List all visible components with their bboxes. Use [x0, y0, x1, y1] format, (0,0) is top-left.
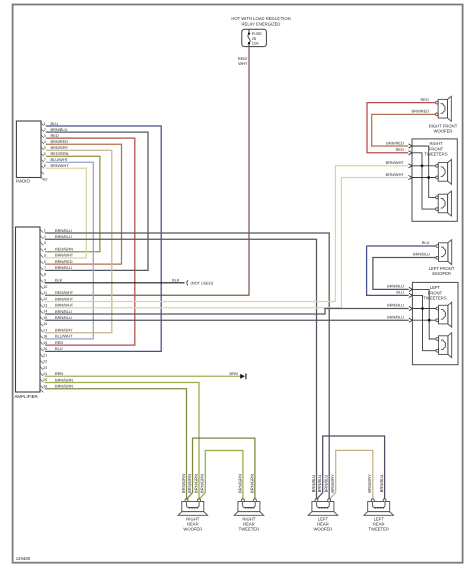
svg-text:16: 16 [43, 322, 47, 326]
radio pin numbers [43, 122, 47, 182]
svg-text:17: 17 [43, 328, 47, 332]
svg-text:BRN/BLU: BRN/BLU [387, 303, 404, 308]
svg-text:15: 15 [43, 316, 47, 320]
svg-text:BRN/BLU: BRN/BLU [379, 475, 384, 493]
svg-text:FUSE: FUSE [252, 32, 263, 36]
wire inside right box arrow2 to tweeter2 bottom [412, 153, 436, 209]
wire RADIO pin 7 BLU/WHT to AMPLIFIER pin 18 [45, 162, 93, 339]
svg-text:RED: RED [421, 97, 429, 102]
right tweeters arrow labels [386, 140, 405, 176]
wire inside left box arrow2 to tweeter2 bottom [412, 295, 435, 350]
svg-text:4: 4 [44, 140, 46, 144]
svg-text:3: 3 [44, 241, 46, 245]
wire AMPLIFIER pin 24 BRN to ground [45, 375, 240, 377]
rear wire color labels (vertical) [181, 474, 384, 493]
svg-text:BRN/RED: BRN/RED [386, 140, 404, 145]
svg-text:BRN/GRY: BRN/GRY [51, 145, 69, 150]
svg-text:BRN/WHT: BRN/WHT [55, 303, 74, 308]
wire right rear woofer T2 to right rear tweeter T1 parallel loop [199, 451, 243, 500]
svg-text:28: 28 [252, 37, 256, 41]
wire AMPLIFIER pin 14 BRN/BLU to left front tweeters arrow 3 [45, 309, 409, 315]
wire RED/WHT fuse to amplifier pin 11 [45, 47, 249, 296]
svg-text:BRN/WHT: BRN/WHT [386, 160, 405, 165]
wire RADIO pin 3 RED to AMPLIFIER pin 19 [45, 138, 135, 345]
svg-text:1: 1 [44, 229, 46, 233]
svg-text:12: 12 [43, 297, 47, 301]
left front tweeters box [412, 282, 458, 364]
wire RADIO pin 4 BRN/RED to AMPLIFIER pin 6 [45, 144, 122, 264]
svg-text:BRN/RED: BRN/RED [51, 139, 69, 144]
svg-text:BLU: BLU [422, 240, 430, 245]
svg-text:11: 11 [43, 291, 47, 295]
svg-text:BRN/BLU: BRN/BLU [413, 252, 430, 257]
svg-text:BRN/BLU: BRN/BLU [317, 475, 322, 493]
svg-text:WHT: WHT [238, 61, 248, 66]
svg-text:(NOT USED): (NOT USED) [191, 280, 214, 285]
junction dot left box 1 [421, 307, 424, 310]
svg-text:9: 9 [44, 279, 46, 283]
svg-text:BRN: BRN [230, 371, 238, 376]
wire inside left box arrow3 to tweeter1 top [412, 308, 435, 310]
svg-text:BLK: BLK [172, 277, 180, 282]
wire inside right box arrow1 to tweeter2 top [412, 146, 436, 197]
amplifier connector block [16, 227, 41, 392]
svg-text:TWEETERS: TWEETERS [423, 296, 446, 301]
svg-text:LEFT FRONT: LEFT FRONT [429, 266, 455, 271]
svg-text:6: 6 [44, 260, 46, 264]
svg-text:TWEETERS: TWEETERS [424, 152, 447, 157]
svg-text:BRN: BRN [55, 371, 63, 376]
radio pin wire labels [51, 121, 70, 168]
svg-text:WOOFER: WOOFER [432, 271, 451, 276]
svg-text:BRN/WHT: BRN/WHT [51, 163, 70, 168]
svg-text:25: 25 [43, 378, 47, 382]
svg-text:BRN/GRN: BRN/GRN [249, 474, 254, 493]
wire RADIO pin 8 BRN/WHT to AMPLIFIER pin 5 [45, 168, 86, 258]
svg-text:TWEETER: TWEETER [368, 527, 388, 532]
svg-text:BRN/BLU: BRN/BLU [55, 265, 72, 270]
svg-text:4: 4 [44, 247, 46, 251]
svg-text:13: 13 [43, 304, 47, 308]
svg-text:AMPLIFIER: AMPLIFIER [15, 394, 38, 399]
svg-text:15A: 15A [252, 41, 259, 45]
svg-text:BRN/GRN: BRN/GRN [181, 474, 186, 493]
wire AMPLIFIER pin 12 BRN/WHT to right front tweeters arrow 3 [45, 166, 409, 302]
svg-text:1: 1 [44, 122, 46, 126]
wire inside right box arrow4 to tweeter1 bottom [412, 177, 436, 179]
svg-text:WOOFER: WOOFER [434, 129, 453, 134]
svg-text:24: 24 [43, 372, 47, 376]
svg-text:BRN/GRN: BRN/GRN [193, 474, 198, 493]
ground symbol [240, 374, 245, 379]
svg-text:WOOFER: WOOFER [313, 527, 332, 532]
svg-text:BRN/GRY: BRN/GRY [55, 328, 73, 333]
wire left rear woofer T2 to left rear tweeter T1 parallel loop [329, 450, 373, 499]
svg-text:20: 20 [43, 347, 47, 351]
wire AMPLIFIER pin 26 BRN/GRN to right rear woofer terminal 1 [45, 389, 187, 499]
speaker right rear tweeter [234, 502, 264, 516]
radio connector block [16, 121, 41, 178]
svg-text:2: 2 [44, 128, 46, 132]
wire RADIO pin 2 BRN/BLU to AMPLIFIER pin 7 [45, 132, 148, 270]
svg-text:RIGHT FRONT: RIGHT FRONT [429, 123, 458, 128]
wire right rear woofer T1 to right rear tweeter T2 parallel loop [187, 438, 255, 499]
svg-text:21: 21 [43, 353, 47, 357]
junction dot right box 2 [427, 176, 430, 179]
svg-text:10: 10 [43, 177, 47, 181]
connector arrows into left tweeters box [409, 287, 413, 322]
connector arrows into right tweeters box [409, 144, 413, 180]
svg-text:14: 14 [43, 310, 47, 314]
svg-text:BLU: BLU [396, 290, 404, 295]
svg-text:19: 19 [43, 341, 47, 345]
svg-text:BLU: BLU [55, 346, 63, 351]
svg-text:BRN/WHT: BRN/WHT [386, 172, 405, 177]
svg-text:18: 18 [43, 335, 47, 339]
svg-text:BLU: BLU [51, 121, 59, 126]
wire inside left box arrow4 to tweeter1 bottom [412, 319, 435, 321]
wire RED right front woofer loop to right tweeters arrow 2 [367, 103, 435, 153]
wire inside left box arrow1 to tweeter2 top [412, 289, 435, 339]
fuse F28 15A [242, 29, 267, 46]
wire AMPLIFIER pin 2 BRN/BLU to left rear woofer terminal 1 [45, 239, 317, 499]
junction dot right box 1 [421, 164, 424, 167]
speaker left front tweeter 1 [436, 302, 452, 327]
speaker left front woofer [436, 240, 452, 265]
svg-text:BRN/GRN: BRN/GRN [55, 377, 73, 382]
wire AMPLIFIER pin 25 BRN/GRN to right rear woofer terminal 2 [45, 383, 199, 499]
svg-text:BLK: BLK [55, 278, 63, 283]
wire left rear woofer T1 to left rear tweeter T2 parallel loop [317, 436, 385, 500]
svg-text:BLU/WHT: BLU/WHT [55, 334, 73, 339]
svg-text:BRN/GRN: BRN/GRN [237, 474, 242, 493]
amplifier pin wire labels [55, 228, 74, 389]
right front tweeters box [412, 139, 457, 221]
svg-text:BRN/GRY: BRN/GRY [367, 474, 372, 493]
svg-text:BRN/GRN: BRN/GRN [55, 384, 73, 389]
amplifier pin stubs [40, 230, 43, 389]
svg-text:WOOFER: WOOFER [183, 527, 202, 532]
svg-text:RED/GRN: RED/GRN [51, 151, 69, 156]
speaker right front tweeter 2 [436, 191, 452, 216]
svg-text:RED: RED [55, 340, 63, 345]
wire RADIO pin 6 RED/GRN to AMPLIFIER pin 4 [45, 156, 100, 252]
speaker left front tweeter 2 [436, 333, 452, 358]
speaker left rear woofer [308, 502, 338, 516]
speaker right front tweeter 1 [436, 160, 452, 185]
wire RADIO pin 5 BRN/GRY to AMPLIFIER pin 17 [45, 150, 112, 333]
rear speaker name labels [183, 516, 389, 531]
wire RADIO pin 1 BLU to AMPLIFIER pin 20 [45, 126, 161, 351]
svg-text:RED/GRN: RED/GRN [55, 247, 73, 252]
amplifier pin numbers [43, 229, 47, 389]
wire BRN/BLU left front woofer loop to left tweeters arrow 1 [373, 258, 436, 290]
svg-text:5: 5 [44, 146, 46, 150]
wire AMPLIFIER pin 1 BRN/BLU to left rear woofer terminal 2 [45, 233, 329, 499]
junction dot left box 2 [428, 319, 431, 322]
svg-text:BRN/BLU: BRN/BLU [55, 228, 72, 233]
svg-text:8: 8 [44, 272, 46, 276]
svg-text:BRN/GRN: BRN/GRN [200, 474, 205, 493]
svg-text:7: 7 [44, 158, 46, 162]
svg-text:8: 8 [44, 164, 46, 168]
svg-text:BRN/BLU: BRN/BLU [55, 234, 72, 239]
speaker left rear tweeter [364, 502, 394, 516]
wire BLU left front woofer loop to left tweeters arrow 2 [367, 246, 436, 295]
wire AMPLIFIER pin 9 BLK not used [45, 282, 185, 284]
svg-text:22: 22 [43, 360, 47, 364]
svg-text:6: 6 [44, 152, 46, 156]
svg-text:TWEETER: TWEETER [239, 527, 259, 532]
svg-text:5: 5 [44, 254, 46, 258]
svg-text:HOT WITH LOAD REDUCTION: HOT WITH LOAD REDUCTION [231, 16, 290, 21]
svg-text:BRN/BLU: BRN/BLU [51, 127, 68, 132]
svg-text:RED: RED [396, 147, 404, 152]
svg-text:RED: RED [51, 133, 59, 138]
radio pin stubs [41, 123, 44, 180]
svg-text:BRN/WHT: BRN/WHT [55, 296, 74, 301]
svg-text:BRN/RED: BRN/RED [412, 109, 430, 114]
svg-text:BRN/WHT: BRN/WHT [55, 253, 74, 258]
wire BRN/RED right front woofer loop to right tweeters arrow 1 [372, 114, 436, 146]
svg-text:BLU/WHT: BLU/WHT [51, 157, 69, 162]
svg-text:BRN/BLU: BRN/BLU [55, 309, 72, 314]
wire inside right box arrow3 to tweeter1 top [412, 165, 436, 167]
svg-text:149485: 149485 [16, 556, 31, 561]
power label HOT WITH LOAD REDUCTION RELAY ENERGIZED [231, 16, 290, 26]
svg-text:RED/WHT: RED/WHT [55, 290, 74, 295]
svg-text:RELAY ENERGIZED: RELAY ENERGIZED [242, 21, 281, 26]
svg-text:BRN/BLU: BRN/BLU [311, 475, 316, 493]
svg-text:2: 2 [44, 235, 46, 239]
svg-text:7: 7 [44, 266, 46, 270]
svg-text:BRN/RED: BRN/RED [55, 259, 73, 264]
svg-text:BRN/BLU: BRN/BLU [55, 315, 72, 320]
svg-text:10: 10 [43, 285, 47, 289]
svg-text:RADIO: RADIO [16, 179, 30, 184]
svg-text:BRN/BLU: BRN/BLU [387, 284, 404, 289]
wire AMPLIFIER pin 13 BRN/WHT to right front tweeters arrow 4 [45, 178, 409, 308]
svg-text:26: 26 [43, 384, 47, 388]
svg-text:BRN/GRY: BRN/GRY [330, 474, 335, 493]
left tweeters arrow labels [387, 284, 404, 320]
speaker right front woofer [436, 96, 452, 121]
svg-text:BRN/BLU: BRN/BLU [324, 475, 329, 493]
svg-text:3: 3 [44, 134, 46, 138]
speaker right rear woofer [178, 502, 208, 516]
svg-text:BRN/GRN: BRN/GRN [187, 474, 192, 493]
svg-text:BRN/BLU: BRN/BLU [387, 314, 404, 319]
wire AMPLIFIER pin 15 BRN/BLU to left front tweeters arrow 4 [45, 319, 409, 321]
svg-text:23: 23 [43, 366, 47, 370]
